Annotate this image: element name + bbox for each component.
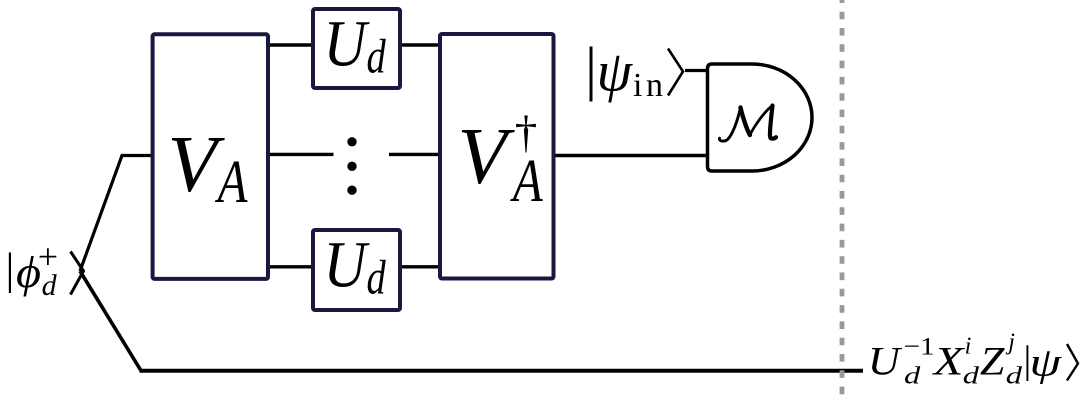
svg-text:in: in — [633, 67, 666, 104]
box U_d bottom — [313, 230, 400, 310]
script M glyph — [719, 106, 776, 142]
svg-text:A: A — [214, 148, 248, 215]
svg-text:ψ: ψ — [1030, 340, 1063, 385]
wire V_A to dots middle — [268, 153, 334, 156]
wire U_d top to V_A dagger — [400, 43, 441, 46]
label U_d top — [324, 7, 386, 84]
output state label U_d^-1 X_d^i Z_d^j |psi> — [868, 330, 1078, 390]
svg-text:i: i — [965, 334, 972, 360]
wire V_A to U_d bottom — [268, 265, 314, 268]
svg-text:|: | — [6, 245, 15, 294]
vertical ellipsis dots — [347, 137, 356, 195]
svg-text:V: V — [168, 119, 226, 209]
svg-text:U: U — [324, 228, 370, 302]
svg-text:d: d — [963, 363, 980, 389]
svg-text:U: U — [868, 339, 903, 383]
svg-text:j: j — [1005, 330, 1015, 356]
svg-text:ψ: ψ — [597, 40, 634, 103]
label V_A dagger — [458, 107, 543, 214]
svg-text:d: d — [1006, 363, 1023, 389]
label U_d bottom — [324, 228, 386, 305]
label V_A — [168, 119, 248, 215]
measurement device M — [708, 64, 813, 171]
svg-text:−1: −1 — [904, 333, 935, 361]
ket phi_d^+ label — [6, 237, 84, 302]
rangle of phi ket — [71, 252, 84, 295]
ket psi_in label — [585, 35, 683, 104]
svg-text:|: | — [585, 35, 597, 101]
rangle of psi_in ket — [668, 49, 683, 96]
box V_A dagger — [440, 34, 554, 279]
rangle of output ket — [1067, 344, 1078, 381]
wire V_A dagger to measurement — [555, 154, 707, 157]
svg-text:d: d — [42, 269, 58, 302]
wire lower diagonal from ket to bottom rail — [80, 271, 141, 371]
svg-text:d: d — [904, 363, 921, 389]
wire V_A to U_d top — [268, 43, 314, 46]
svg-text:U: U — [324, 7, 370, 81]
box U_d top — [313, 9, 400, 88]
svg-text:V: V — [458, 111, 516, 201]
dashed boundary line — [840, 0, 845, 395]
svg-text:A: A — [509, 147, 543, 214]
wire dots to V_A dagger middle — [389, 153, 441, 156]
svg-text:d: d — [367, 251, 386, 304]
svg-text:d: d — [367, 30, 386, 83]
box V_A — [153, 34, 268, 279]
wire bottom rail — [140, 369, 864, 373]
wire input diagonal from ket to V_A — [80, 156, 152, 272]
wire U_d bottom to V_A dagger — [400, 265, 441, 268]
svg-text:X: X — [931, 339, 965, 384]
svg-text:Z: Z — [980, 340, 1005, 384]
wire psi_in to measurement — [685, 69, 707, 72]
